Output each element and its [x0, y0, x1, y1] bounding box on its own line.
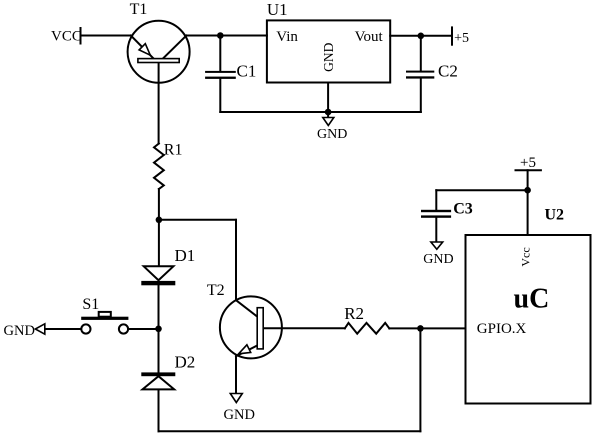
svg-text:Vcc: Vcc	[519, 247, 533, 266]
svg-text:GND: GND	[4, 323, 35, 339]
svg-text:D1: D1	[175, 246, 196, 265]
svg-text:GPIO.X: GPIO.X	[477, 321, 527, 337]
svg-text:+5: +5	[454, 31, 469, 46]
svg-text:U1: U1	[267, 0, 288, 19]
svg-text:U2: U2	[545, 207, 565, 224]
svg-text:GND: GND	[423, 252, 453, 267]
svg-text:S1: S1	[82, 296, 99, 313]
svg-text:GND: GND	[321, 42, 336, 71]
svg-text:R2: R2	[344, 304, 364, 323]
svg-text:+5: +5	[520, 155, 536, 171]
svg-text:C2: C2	[438, 62, 458, 81]
svg-text:Vout: Vout	[355, 29, 384, 45]
svg-text:R1: R1	[164, 142, 183, 159]
svg-text:C3: C3	[453, 201, 473, 218]
svg-text:D2: D2	[175, 353, 196, 372]
svg-text:C1: C1	[237, 62, 257, 81]
svg-text:GND: GND	[224, 407, 255, 423]
svg-text:T2: T2	[207, 282, 225, 299]
svg-text:uC: uC	[514, 284, 550, 315]
svg-text:Vin: Vin	[276, 29, 298, 45]
svg-text:T1: T1	[130, 1, 148, 18]
svg-text:GND: GND	[317, 127, 347, 142]
svg-text:VCC: VCC	[51, 29, 82, 45]
